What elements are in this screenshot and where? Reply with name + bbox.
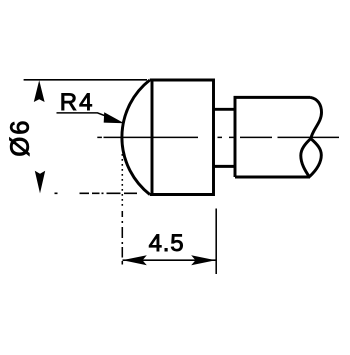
svg-text:Ø6: Ø6 [7, 119, 35, 157]
svg-text:R4: R4 [60, 89, 95, 116]
svg-text:4.5: 4.5 [149, 230, 185, 257]
